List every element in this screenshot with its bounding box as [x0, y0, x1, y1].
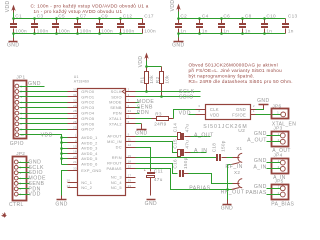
svg-text:150p: 150p — [183, 157, 188, 169]
AVDD bus stubs — [60, 136, 67, 164]
svg-text:NC_5: NC_5 — [111, 185, 122, 190]
wire C16 to X2 — [184, 174, 238, 184]
svg-text:X1: X1 — [236, 146, 242, 151]
label PA_BIAS — [271, 202, 294, 208]
svg-text:JP5: JP5 — [275, 178, 284, 183]
svg-text:GND: GND — [7, 43, 19, 49]
svg-text:FS/OE: FS/OE — [232, 112, 246, 117]
connector JP2 — [13, 151, 27, 200]
wire shield to GND — [227, 165, 229, 205]
label CTRL — [9, 202, 24, 208]
svg-text:VDD: VDD — [170, 0, 176, 11]
wire C18 to X1 — [222, 157, 238, 159]
wire top rail (left bank) — [14, 18, 143, 20]
svg-text:SCLK: SCLK — [111, 89, 122, 94]
svg-text:17: 17 — [128, 173, 132, 177]
svg-text:21: 21 — [73, 160, 77, 164]
svg-text:6: 6 — [128, 104, 130, 108]
capacitor C9 — [96, 14, 113, 34]
capacitor C3 — [31, 14, 49, 34]
connector JP1 — [14, 75, 27, 139]
resistor R3 — [152, 112, 174, 127]
svg-text:JP1: JP1 — [16, 75, 25, 80]
svg-text:14: 14 — [66, 184, 70, 188]
svg-text:C8: C8 — [245, 14, 252, 19]
svg-text:30: 30 — [73, 88, 77, 92]
wire X1 shield — [225, 163, 243, 170]
svg-text:18: 18 — [128, 159, 132, 163]
wire bottom rail (left bank) — [14, 33, 143, 35]
wire RFIN — [136, 157, 217, 159]
svg-text:1n: 1n — [202, 28, 208, 33]
svg-text:R3= 24R9 dle datasheetu Si501: R3= 24R9 dle datasheetu Si501 pro 50 Ohm… — [189, 79, 293, 84]
svg-text:XTAL2: XTAL2 — [109, 121, 122, 126]
svg-text:PA_BIAS: PA_BIAS — [271, 202, 294, 208]
junction — [220, 17, 223, 35]
svg-text:SDIO: SDIO — [179, 95, 194, 101]
capacitor C11 — [144, 168, 163, 196]
svg-text:GPIO2: GPIO2 — [81, 100, 94, 105]
label A_IN — [273, 175, 286, 181]
svg-text:C7: C7 — [80, 14, 87, 19]
svg-text:být naprogramovány špatně.: být naprogramovány špatně. — [189, 74, 255, 79]
capacitor C15 — [173, 139, 190, 156]
svg-text:AVDD_3: AVDD_3 — [81, 146, 97, 151]
wire R3 to U2 CLK — [174, 110, 196, 119]
svg-text:EXP_GND: EXP_GND — [81, 168, 101, 173]
svg-text:VDD: VDD — [28, 192, 40, 198]
wire RFOUT — [136, 164, 178, 174]
svg-text:C15: C15 — [173, 139, 178, 149]
power VDD (right cap bank) — [170, 0, 181, 19]
U1 right pins with names and numbers — [107, 88, 136, 191]
svg-text:2: 2 — [253, 104, 255, 108]
wire A_IN — [185, 148, 208, 154]
junction — [119, 17, 122, 35]
svg-text:GND: GND — [221, 206, 233, 212]
wire MIC_IN — [136, 142, 178, 153]
svg-text:GND: GND — [254, 131, 267, 137]
svg-text:VDD: VDD — [179, 110, 191, 116]
svg-text:13: 13 — [73, 144, 77, 148]
svg-text:XTAL1: XTAL1 — [109, 116, 122, 121]
capacitor C17 — [138, 14, 156, 34]
svg-text:GPIO3: GPIO3 — [81, 105, 94, 110]
svg-text:C18: C18 — [212, 143, 217, 153]
svg-text:PDN: PDN — [137, 110, 149, 116]
svg-text:GPIO5: GPIO5 — [81, 116, 94, 121]
capacitor C7 — [74, 14, 92, 34]
svg-text:GND: GND — [28, 81, 41, 87]
note text (Si501) — [189, 63, 293, 85]
svg-text:1n: 1n — [223, 28, 229, 33]
capacitor C12 — [117, 14, 135, 34]
svg-text:GND: GND — [55, 201, 67, 207]
svg-text:33: 33 — [73, 167, 77, 171]
svg-text:7: 7 — [128, 98, 130, 102]
connector JP5 — [272, 178, 289, 199]
svg-text:C3: C3 — [37, 14, 44, 19]
svg-text:C4: C4 — [202, 14, 209, 19]
capacitor C2 — [175, 14, 187, 34]
svg-text:24: 24 — [128, 109, 132, 113]
wire JP1 pin10 VDD bus — [20, 133, 62, 165]
wire XTAL1 to R3 — [136, 118, 152, 120]
svg-text:AVDD_2: AVDD_2 — [81, 140, 97, 145]
svg-text:27: 27 — [73, 115, 77, 119]
svg-text:NC_2: NC_2 — [81, 185, 92, 190]
svg-text:C16: C16 — [173, 159, 178, 169]
svg-text:C2: C2 — [180, 14, 187, 19]
svg-text:A_OUT: A_OUT — [247, 137, 267, 143]
junction — [55, 17, 58, 35]
svg-text:100n: 100n — [58, 28, 70, 33]
svg-text:1n: 1n — [245, 28, 251, 33]
svg-text:AVDD_1: AVDD_1 — [81, 135, 97, 140]
svg-text:PABIAS: PABIAS — [189, 185, 210, 191]
junction — [12, 17, 15, 35]
power VDD (pullups) — [138, 53, 149, 68]
ground (right bank) — [172, 34, 184, 49]
wire AFOUT — [136, 136, 178, 138]
svg-text:C1: C1 — [15, 14, 22, 19]
svg-text:3: 3 — [198, 104, 200, 108]
svg-text:1n: 1n — [288, 28, 294, 33]
ground (left bank) — [7, 34, 19, 49]
svg-text:26: 26 — [73, 120, 77, 124]
wire A_OUT — [185, 133, 215, 139]
svg-text:31: 31 — [73, 93, 77, 97]
wire SENB — [136, 105, 153, 111]
svg-text:VDD: VDD — [210, 112, 220, 117]
svg-text:16: 16 — [73, 150, 77, 154]
wire JP4 GND — [254, 158, 281, 164]
svg-text:C6: C6 — [223, 14, 230, 19]
wires JP1 to GPIO — [20, 92, 68, 130]
resistor R1 — [140, 72, 155, 92]
capacitor C10 — [261, 14, 276, 34]
svg-text:AVDD_5: AVDD_5 — [81, 156, 97, 161]
svg-text:C: 100n - pro každý vstup VDD/: C: 100n - pro každý vstup VDD/AVDD obvod… — [31, 2, 149, 8]
connector JP6 — [272, 103, 289, 118]
U2 left pins — [196, 104, 206, 115]
svg-text:C11: C11 — [154, 168, 163, 173]
svg-text:9: 9 — [128, 132, 130, 136]
ground (X1 X2) — [221, 205, 233, 212]
svg-text:23: 23 — [128, 184, 132, 188]
svg-text:10k: 10k — [149, 75, 154, 84]
wire VDD to R1/R2 — [147, 67, 162, 72]
svg-text:GPIO: GPIO — [10, 141, 24, 147]
svg-text:PABIAS: PABIAS — [107, 166, 122, 171]
svg-text:NC_3: NC_3 — [111, 175, 122, 180]
svg-text:U1: U1 — [74, 75, 79, 79]
svg-text:8: 8 — [20, 122, 22, 126]
svg-text:4: 4 — [198, 109, 200, 113]
svg-text:AT18469: AT18469 — [74, 79, 89, 83]
svg-text:3: 3 — [128, 93, 130, 97]
svg-text:C10: C10 — [266, 14, 276, 19]
note text (decoupling) — [31, 2, 149, 14]
svg-text:SENB: SENB — [110, 105, 122, 110]
svg-text:29: 29 — [73, 104, 77, 108]
wire JP5 PABIAS — [246, 190, 281, 196]
svg-text:GPIO7: GPIO7 — [81, 127, 94, 132]
capacitor C13 — [282, 14, 297, 34]
svg-text:5: 5 — [128, 115, 130, 119]
svg-text:12: 12 — [128, 143, 132, 147]
capacitor C4 — [196, 14, 209, 34]
svg-text:47u: 47u — [184, 140, 189, 149]
svg-text:C17: C17 — [144, 14, 154, 19]
wire top rail (right bank) — [179, 18, 286, 20]
junction — [33, 17, 36, 35]
svg-text:DC: DC — [116, 144, 122, 149]
svg-text:A_OUT: A_OUT — [194, 133, 214, 139]
power VDD (left cap bank) — [5, 0, 16, 18]
IC U1 — [74, 75, 126, 196]
connector X2 — [234, 170, 242, 188]
IC U2 — [203, 105, 250, 134]
svg-text:C14: C14 — [173, 123, 178, 133]
svg-text:GND: GND — [236, 107, 246, 112]
svg-text:25: 25 — [73, 125, 77, 129]
ground (C11) — [145, 200, 157, 208]
svg-text:U2: U2 — [238, 128, 245, 134]
svg-text:GND: GND — [172, 43, 184, 49]
connector JP4 — [272, 153, 289, 174]
junction — [98, 17, 101, 35]
wire EXP_GND — [62, 171, 68, 200]
svg-text:RFIN: RFIN — [112, 155, 122, 160]
svg-text:47u: 47u — [184, 124, 189, 133]
wire U2 GND — [256, 105, 264, 110]
svg-text:C5: C5 — [58, 14, 65, 19]
svg-text:100n: 100n — [144, 28, 156, 33]
svg-text:100n: 100n — [15, 28, 27, 33]
svg-text:3: 3 — [20, 95, 22, 99]
svg-text:GND: GND — [145, 201, 157, 207]
svg-text:JP4: JP4 — [274, 153, 283, 158]
wire SDIO — [136, 95, 201, 101]
svg-text:100n: 100n — [123, 28, 135, 33]
svg-text:CLK: CLK — [210, 107, 219, 112]
ground (U2) — [257, 98, 269, 104]
label GPIO — [10, 141, 24, 147]
wire MODE — [136, 99, 155, 105]
svg-text:R2: R2 — [155, 77, 160, 84]
junction — [198, 17, 201, 35]
svg-text:100n: 100n — [37, 28, 49, 33]
junction — [241, 17, 244, 35]
svg-text:RFOUT: RFOUT — [107, 161, 122, 166]
capacitor C5 — [52, 14, 70, 34]
svg-text:JP2: JP2 — [16, 151, 25, 156]
svg-text:PDN: PDN — [113, 111, 122, 116]
svg-text:28: 28 — [73, 109, 77, 113]
label XTAL_EN — [272, 121, 296, 127]
svg-text:19: 19 — [128, 179, 132, 183]
junction — [263, 17, 266, 35]
svg-text:GPIO4: GPIO4 — [81, 111, 95, 116]
capacitor C8 — [239, 14, 252, 34]
svg-text:10k: 10k — [165, 75, 170, 84]
capacitor C14 — [173, 123, 190, 140]
wire PDN — [136, 110, 150, 116]
svg-text:32: 32 — [73, 98, 77, 102]
svg-text:1: 1 — [75, 134, 77, 138]
svg-text:X2: X2 — [234, 170, 240, 175]
svg-text:100n: 100n — [80, 28, 92, 33]
svg-text:AVDD_4: AVDD_4 — [81, 151, 98, 156]
svg-text:AFOUT: AFOUT — [107, 134, 122, 139]
svg-text:2: 2 — [128, 88, 130, 92]
svg-text:MIC_IN: MIC_IN — [107, 139, 122, 144]
svg-text:RF_OUT: RF_OUT — [221, 190, 245, 196]
capacitor C1 — [10, 14, 27, 34]
wire PABIAS — [136, 169, 229, 192]
wire JP5 GND — [254, 184, 281, 190]
ground (XTAL2) — [135, 130, 147, 137]
svg-text:100n: 100n — [101, 28, 113, 33]
svg-text:VDD: VDD — [41, 133, 53, 139]
svg-text:47u: 47u — [154, 177, 163, 182]
svg-text:GND: GND — [257, 98, 269, 104]
U2 right pins — [251, 104, 256, 115]
svg-text:GPIO1: GPIO1 — [81, 94, 94, 99]
connector JP3 — [272, 125, 289, 146]
wire U2 VDD — [179, 110, 196, 116]
svg-text:SDIO: SDIO — [111, 94, 122, 99]
wire JP4 A_IN — [253, 164, 280, 170]
resistor R2 — [155, 72, 170, 97]
svg-text:MODE: MODE — [109, 100, 122, 105]
svg-text:15: 15 — [128, 154, 132, 158]
svg-text:11: 11 — [128, 138, 132, 142]
svg-text:10: 10 — [66, 179, 70, 183]
svg-text:AVDD_6: AVDD_6 — [81, 162, 97, 167]
svg-text:A_IN: A_IN — [194, 148, 208, 154]
svg-text:1n: 1n — [266, 28, 272, 33]
wire JP1 pin1 GND — [20, 81, 45, 87]
svg-text:při FS/OE=L. Jiné varianty Si5: při FS/OE=L. Jiné varianty Si501 mohou — [189, 68, 283, 73]
svg-text:A_IN: A_IN — [253, 164, 267, 170]
wire SCLK — [136, 89, 201, 95]
wire X2 shield — [221, 188, 245, 196]
svg-text:150p: 150p — [220, 140, 225, 152]
svg-text:24R9: 24R9 — [154, 122, 166, 127]
junction — [145, 65, 148, 68]
svg-text:GPIO6: GPIO6 — [81, 121, 94, 126]
wire JP3 GND — [254, 131, 281, 137]
svg-text:CTRL: CTRL — [9, 202, 24, 208]
svg-text:R3: R3 — [155, 112, 162, 117]
svg-text:C13: C13 — [288, 14, 298, 19]
svg-text:VDD: VDD — [5, 0, 11, 12]
svg-text:GND: GND — [135, 131, 147, 137]
JP1 pins — [15, 84, 24, 137]
label A_OUT — [272, 148, 290, 154]
wire FS/OE to JP6 — [256, 114, 281, 116]
capacitor C16 — [173, 157, 189, 177]
svg-text:Obvod 501JCK26M0000DAG je akti: Obvod 501JCK26M0000DAG je aktivní — [189, 63, 279, 68]
svg-text:C12: C12 — [123, 14, 133, 19]
svg-text:1: 1 — [253, 109, 255, 113]
JP2 pins — [14, 160, 46, 198]
svg-text:VDD: VDD — [138, 56, 144, 68]
svg-text:C9: C9 — [101, 14, 108, 19]
junction — [76, 17, 79, 35]
svg-text:4: 4 — [75, 139, 77, 143]
wire bottom rail (right bank) — [179, 33, 286, 35]
junction — [177, 17, 180, 35]
wire DC — [136, 148, 151, 168]
capacitor C6 — [218, 14, 230, 34]
svg-text:1: 1 — [277, 110, 279, 114]
U1 left pins with names and numbers — [66, 88, 101, 191]
svg-text:GND: GND — [254, 158, 267, 164]
svg-text:R1: R1 — [140, 77, 145, 84]
svg-text:6: 6 — [128, 120, 130, 124]
svg-text:GND: GND — [254, 184, 267, 190]
svg-text:PABIAS: PABIAS — [246, 190, 267, 196]
wire JP3 A_OUT — [247, 137, 280, 143]
svg-text:JP3: JP3 — [274, 125, 283, 130]
svg-text:1n: 1n — [180, 28, 186, 33]
svg-text:JP6: JP6 — [272, 103, 281, 108]
ground (EXP_GND) — [55, 200, 67, 208]
connector X1 — [236, 146, 243, 163]
capacitor C18 — [212, 140, 226, 161]
wire XTAL2 — [136, 124, 142, 130]
svg-text:GPIO0: GPIO0 — [81, 89, 95, 94]
origin mark — [2, 213, 7, 218]
svg-text:20: 20 — [73, 155, 77, 159]
svg-text:1n - pro každý vstup AVDD obvo: 1n - pro každý vstup AVDD obvodu U1 — [34, 9, 123, 14]
svg-text:RF_IN: RF_IN — [225, 164, 243, 170]
svg-text:22: 22 — [128, 165, 132, 169]
